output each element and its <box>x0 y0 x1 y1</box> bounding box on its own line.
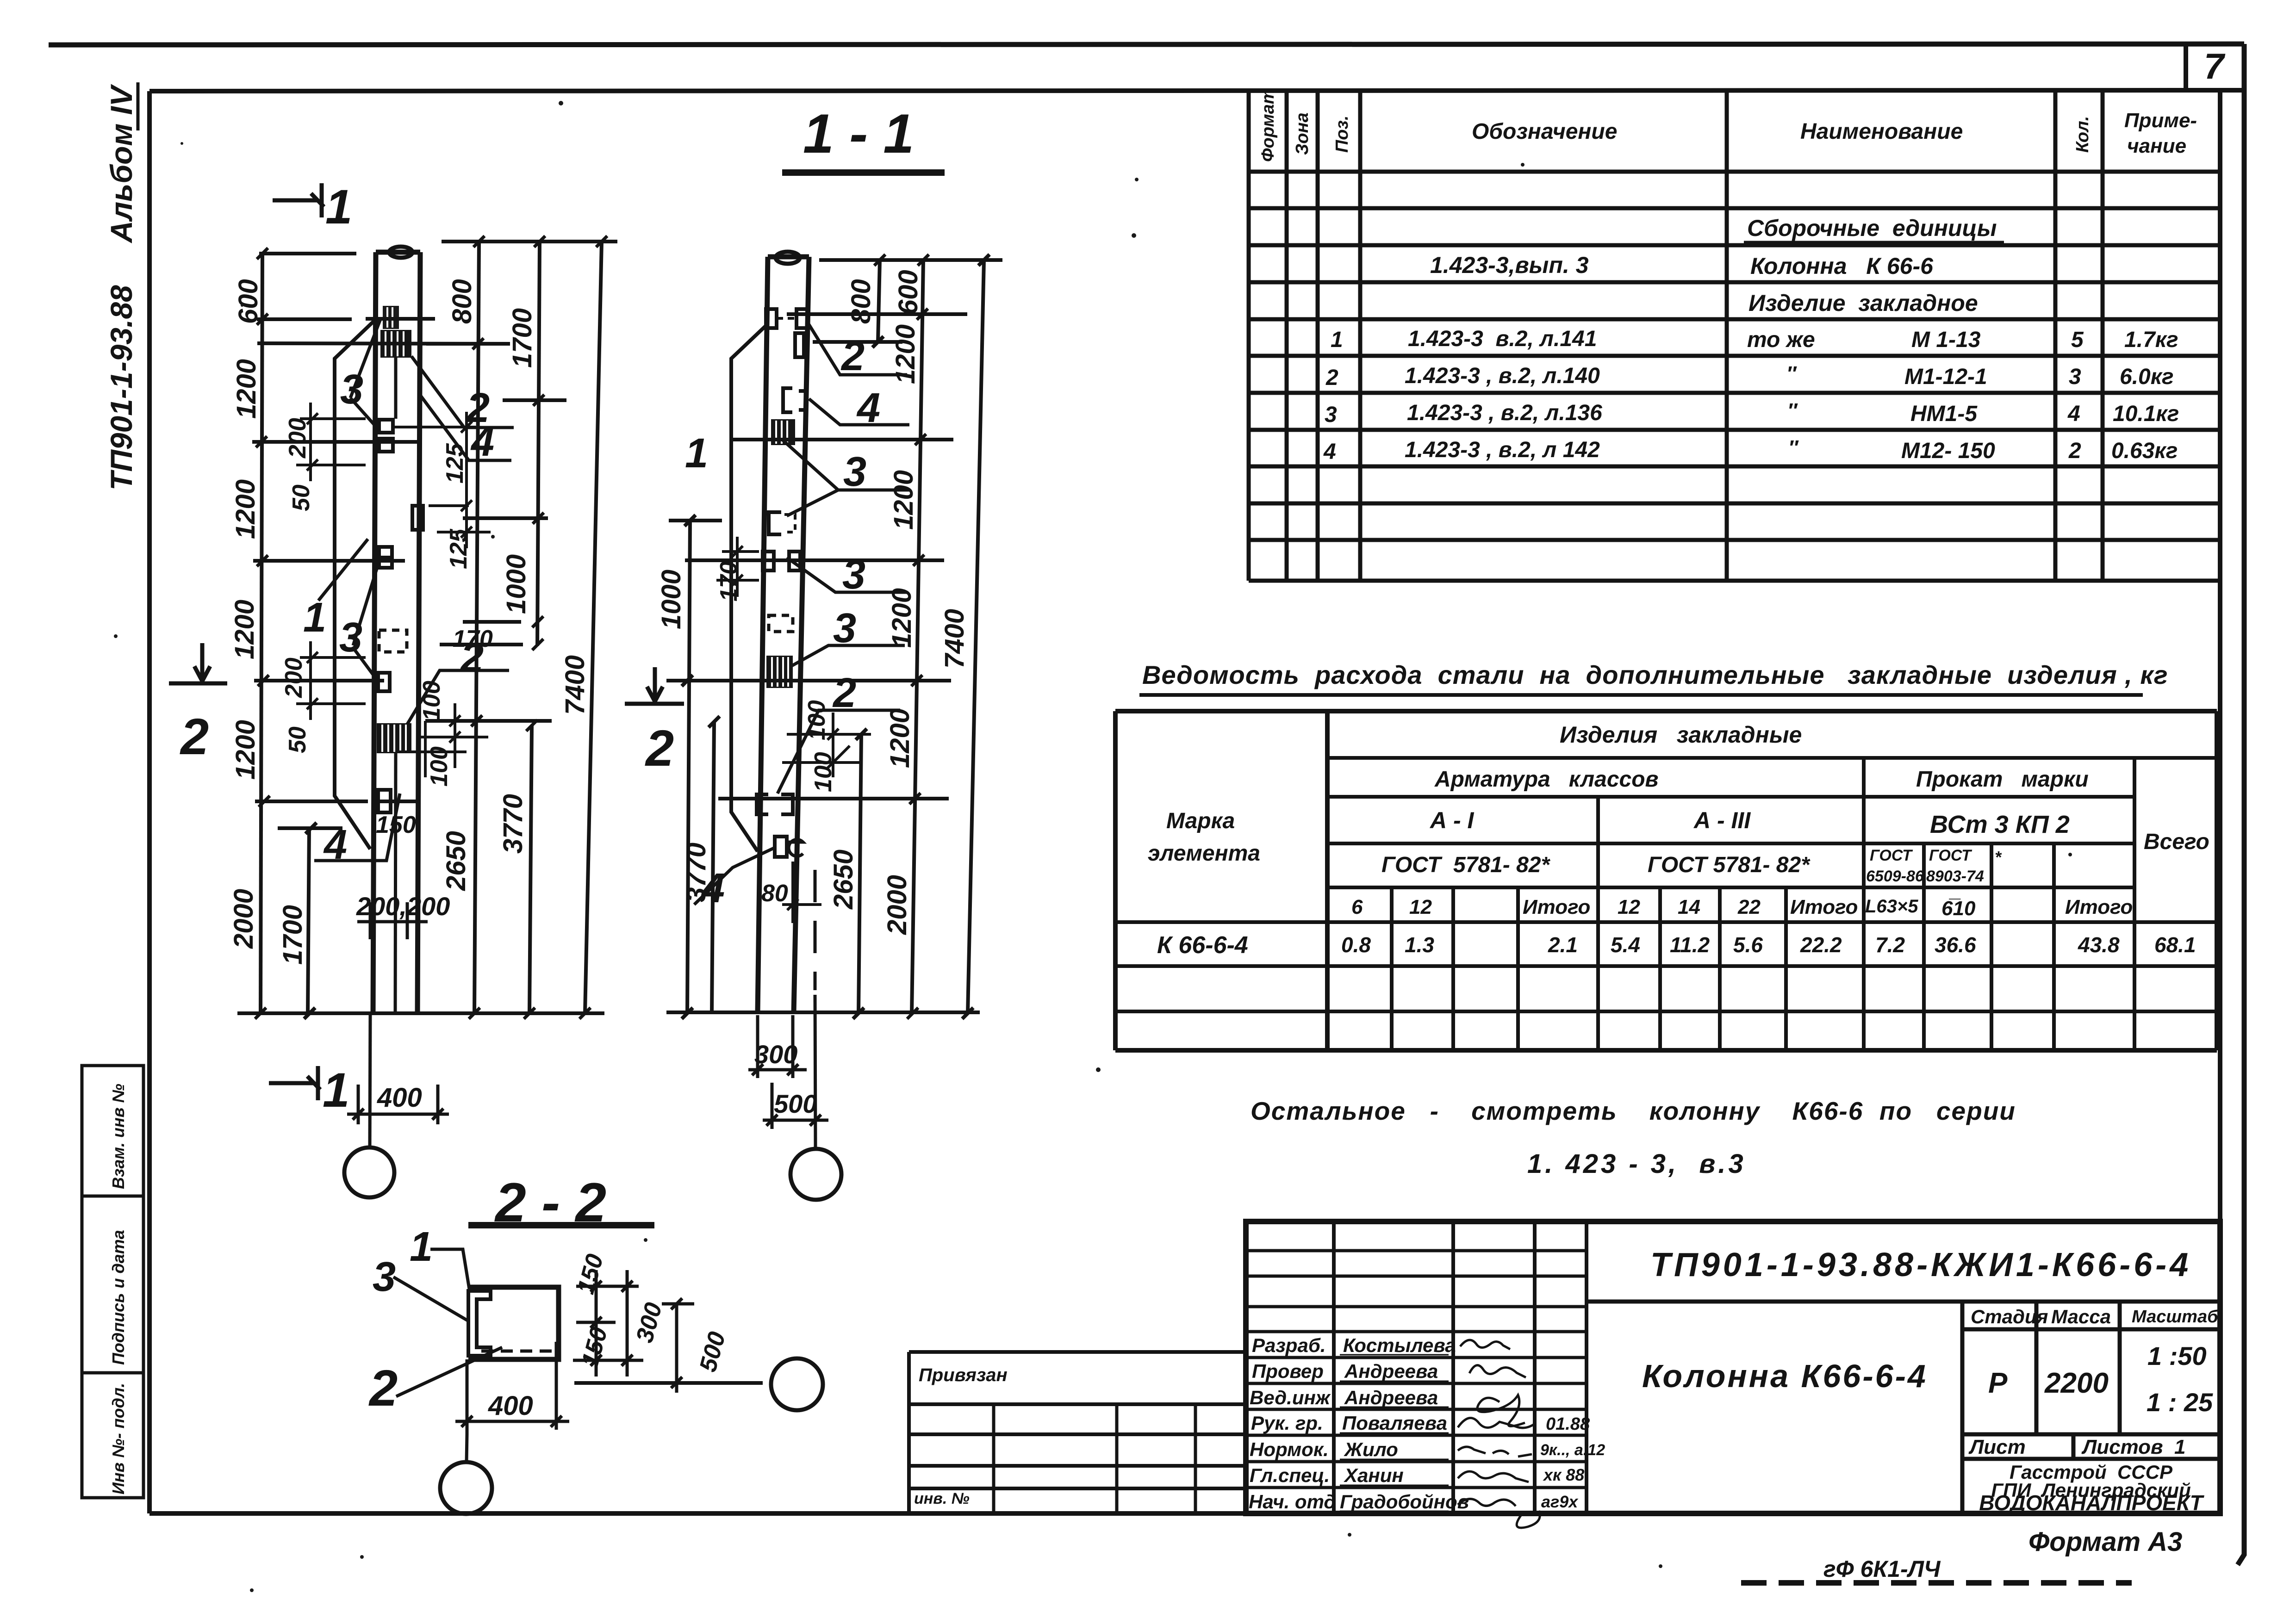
svg-text:Наименование: Наименование <box>1800 119 1963 144</box>
svg-text:11.2: 11.2 <box>1670 933 1710 957</box>
embed tall thin <box>795 333 804 357</box>
svg-text:300: 300 <box>754 1040 797 1069</box>
lifting loop right <box>776 252 800 264</box>
svg-text:НМ1-5: НМ1-5 <box>1910 402 1978 426</box>
svg-text:5.6: 5.6 <box>1733 933 1763 957</box>
svg-text:ТП901-1-93.88 Альбом IV: ТП901-1-93.88 Альбом IV <box>104 84 138 490</box>
svg-text:125: 125 <box>445 528 472 569</box>
svg-text:Приме-: Приме- <box>2124 109 2197 132</box>
embed channel mid <box>379 420 393 452</box>
svg-text:″: ″ <box>1786 362 1797 385</box>
svg-text:1: 1 <box>410 1224 433 1270</box>
svg-text:3: 3 <box>1325 403 1337 427</box>
svg-text:Обозначение: Обозначение <box>1472 119 1617 144</box>
svg-text:600: 600 <box>233 279 263 324</box>
leader 2 top right <box>807 322 907 375</box>
svg-text:3: 3 <box>339 614 362 661</box>
svg-text:2: 2 <box>832 670 856 716</box>
svg-text:2: 2 <box>2068 439 2081 463</box>
400 width dim <box>347 1085 449 1124</box>
RIGHT COLUMN VIEW <box>625 252 1002 1200</box>
svg-text:1. 423 - 3, в.3: 1. 423 - 3, в.3 <box>1527 1149 1746 1179</box>
svg-text:Андреева: Андреева <box>1344 1360 1438 1382</box>
svg-text:170: 170 <box>716 561 742 601</box>
column body right view <box>758 257 809 1013</box>
100/100 dims <box>399 703 488 777</box>
left margin boxes <box>82 1066 143 1498</box>
svg-text:Формат: Формат <box>1258 88 1278 162</box>
svg-text:6.0кг: 6.0кг <box>2120 365 2174 389</box>
small dims 200/50 pair1 <box>296 403 366 481</box>
svg-text:2000: 2000 <box>229 889 259 949</box>
embed small 2 <box>378 673 390 691</box>
svg-text:3: 3 <box>833 605 856 651</box>
svg-text:1: 1 <box>303 595 326 641</box>
circle 2-2 bottom <box>440 1462 492 1514</box>
leader 3 first right <box>782 440 909 516</box>
chain A ticks <box>237 254 510 1013</box>
150/150/300/500 dims <box>573 1270 643 1376</box>
svg-text:Изделия закладные: Изделия закладные <box>1560 722 1802 748</box>
circle 2-2 right <box>771 1358 823 1410</box>
svg-text:Стадия: Стадия <box>1971 1306 2048 1327</box>
svg-text:1.423-3,вып. 3: 1.423-3,вып. 3 <box>1430 252 1589 278</box>
svg-text:Марка: Марка <box>1166 809 1235 833</box>
svg-text:2.1: 2.1 <box>1548 933 1578 957</box>
svg-text:1700: 1700 <box>507 308 537 368</box>
svg-text:Разраб.: Разраб. <box>1252 1334 1326 1356</box>
chamfer profile right <box>731 324 768 851</box>
svg-text:М1-12-1: М1-12-1 <box>1904 365 1987 389</box>
anchor line below embed <box>394 358 398 419</box>
svg-text:1200: 1200 <box>885 708 915 768</box>
svg-text:Провер: Провер <box>1252 1360 1324 1382</box>
svg-text:1: 1 <box>685 430 708 477</box>
svg-text:150: 150 <box>376 812 416 838</box>
sheet right border <box>2238 44 2244 1565</box>
svg-text:100: 100 <box>803 700 830 740</box>
chain 3770 <box>529 725 532 1013</box>
section mark 2 left <box>169 643 227 683</box>
svg-text:125: 125 <box>442 443 468 484</box>
svg-text:ВСт 3 КП 2: ВСт 3 КП 2 <box>1930 811 2070 838</box>
svg-text:4: 4 <box>856 385 880 431</box>
embed bracket dashed <box>769 512 781 534</box>
svg-text:1200: 1200 <box>890 324 921 384</box>
svg-text:Нормок.: Нормок. <box>1250 1438 1329 1460</box>
embed hatched 2 <box>377 723 411 753</box>
svg-text:К 66-6-4: К 66-6-4 <box>1157 932 1248 959</box>
svg-text:1200: 1200 <box>887 588 917 648</box>
svg-text:Формат А3: Формат А3 <box>2028 1527 2182 1557</box>
small dims 200/50 pair2 <box>296 641 366 720</box>
svg-text:Ведомость расхода стали на: Ведомость расхода стали на дополнительны… <box>1142 660 2168 689</box>
svg-text:68.1: 68.1 <box>2154 933 2196 957</box>
lifting loop <box>389 247 412 258</box>
500 dim <box>763 1083 828 1129</box>
note text <box>1251 1097 2016 1179</box>
svg-text:Колонна К 66-6: Колонна К 66-6 <box>1750 253 1934 279</box>
svg-text:Гл.спец.: Гл.спец. <box>1250 1464 1330 1486</box>
embed small 3 <box>378 790 391 812</box>
table grid verticals <box>1249 90 2220 581</box>
leader 2 mid <box>407 670 509 724</box>
svg-text:400: 400 <box>488 1391 533 1421</box>
svg-text:1700: 1700 <box>278 905 308 965</box>
svg-text:50: 50 <box>288 484 315 511</box>
leader 2 top <box>411 356 514 428</box>
leader 4 top <box>419 393 511 460</box>
svg-text:Р: Р <box>1988 1367 2008 1399</box>
axis line to circle right <box>815 995 815 1148</box>
svg-text:*: * <box>1995 848 2002 867</box>
right part lines <box>1587 1302 2220 1513</box>
svg-text:ГОСТ: ГОСТ <box>1929 847 1972 864</box>
svg-text:50: 50 <box>284 726 311 753</box>
svg-text:2650: 2650 <box>441 831 471 891</box>
chain R1 800 <box>813 260 902 347</box>
TITLE BLOCK <box>909 1221 2220 1528</box>
svg-text:6̅10: 6̅10 <box>1941 897 1976 920</box>
svg-text:ТП901-1-93.88-КЖИ1-К66-6-4: ТП901-1-93.88-КЖИ1-К66-6-4 <box>1650 1246 2191 1283</box>
svg-text:Костылева: Костылева <box>1343 1334 1456 1356</box>
column axis line to circle <box>370 1015 370 1147</box>
svg-text:Остальное - смотреть к: Остальное - смотреть колонну К66-6 по се… <box>1251 1097 2016 1125</box>
svg-text:Итого: Итого <box>1523 896 1590 918</box>
chain R3 2650 <box>853 729 867 1019</box>
top tick line right view <box>819 258 1002 262</box>
svg-text:Масштаб: Масштаб <box>2132 1307 2219 1327</box>
center dashed axis <box>814 870 817 990</box>
dim chain A line <box>261 252 262 1013</box>
leader 4 right <box>809 399 909 425</box>
signatures squiggles <box>1460 1340 1510 1349</box>
name baseline rules <box>1340 1355 1449 1511</box>
svg-text:инв. №: инв. № <box>914 1490 970 1507</box>
embed pair mid <box>763 552 800 570</box>
channel embed in section <box>468 1291 491 1356</box>
svg-text:Андреева: Андреева <box>1344 1387 1438 1408</box>
column body left view <box>373 252 420 1015</box>
svg-text:2: 2 <box>645 720 674 777</box>
svg-text:1.3: 1.3 <box>1405 933 1434 957</box>
leader 2 section <box>396 1347 502 1396</box>
svg-text:9к.., а.12: 9к.., а.12 <box>1540 1441 1605 1459</box>
dashed bottom edge <box>481 1350 555 1353</box>
svg-text:01.88: 01.88 <box>1546 1414 1590 1434</box>
svg-text:1200: 1200 <box>230 600 260 659</box>
axis line to circle 2-2 <box>467 1434 467 1462</box>
svg-text:3: 3 <box>2069 365 2081 389</box>
svg-text:Изделие закладное: Изделие закладное <box>1748 290 1978 316</box>
inner frame <box>149 90 2220 1513</box>
svg-text:7400: 7400 <box>940 609 970 669</box>
svg-text:Взам. инв №: Взам. инв № <box>109 1084 128 1189</box>
LEFT COLUMN VIEW <box>169 180 617 1197</box>
leader 3 section <box>393 1277 468 1321</box>
svg-text:1200: 1200 <box>230 720 261 780</box>
embed hatched top right <box>771 419 795 445</box>
svg-text:аг9х: аг9х <box>1541 1492 1579 1511</box>
svg-text:100: 100 <box>810 752 837 792</box>
leader 2 bottom right <box>778 710 900 794</box>
svg-text:Масса: Масса <box>2051 1306 2111 1327</box>
svg-text:1.423-3 в.2, л.141: 1.423-3 в.2, л.141 <box>1408 327 1597 351</box>
svg-text:Подпись и дата: Подпись и дата <box>109 1230 128 1365</box>
SPEC TABLE top right <box>1249 88 2220 581</box>
svg-text:14: 14 <box>1678 896 1700 918</box>
svg-text:2: 2 <box>368 1360 398 1417</box>
svg-text:1.423-3 , в.2, л 142: 1.423-3 , в.2, л 142 <box>1405 438 1600 462</box>
embed pair top <box>766 309 807 328</box>
top small rows <box>1246 1251 1587 1307</box>
embed M1 top small <box>383 306 399 329</box>
chain 7400 <box>585 242 602 1013</box>
170 dim right <box>716 537 759 597</box>
svg-text:ГОСТ: ГОСТ <box>1870 847 1913 864</box>
page number box <box>2186 44 2244 90</box>
left grid verticals <box>1334 1221 1587 1513</box>
svg-text:1200: 1200 <box>889 470 919 530</box>
section mark 1 top <box>273 183 324 217</box>
svg-text:3770: 3770 <box>681 843 711 902</box>
svg-text:Жило: Жило <box>1344 1438 1398 1460</box>
svg-text:Арматура классов: Арматура классов <box>1434 767 1659 792</box>
leader 3 mid <box>353 560 380 680</box>
name rows <box>1246 1332 1587 1488</box>
leader 3 third right <box>787 645 905 669</box>
embed dashed right <box>769 615 793 632</box>
svg-text:800: 800 <box>846 279 876 324</box>
svg-text:0.63кг: 0.63кг <box>2111 439 2178 463</box>
svg-text:5.4: 5.4 <box>1611 933 1640 957</box>
svg-text:2000: 2000 <box>882 875 912 935</box>
svg-text:3: 3 <box>373 1254 396 1300</box>
svg-text:Инв №- подл.: Инв №- подл. <box>109 1383 128 1494</box>
horizontal line to circle <box>574 1381 763 1385</box>
svg-text:8903-74: 8903-74 <box>1926 868 1984 885</box>
svg-text:L63×5: L63×5 <box>1865 896 1918 917</box>
100/100 dims right <box>782 713 871 777</box>
svg-text:ВОДОКАНАЛПРОЕКТ: ВОДОКАНАЛПРОЕКТ <box>1979 1491 2204 1515</box>
svg-text:2: 2 <box>180 708 209 765</box>
svg-text:Нач. отд: Нач. отд <box>1249 1491 1336 1513</box>
embed hatched bottom right <box>766 656 793 688</box>
left chamfer profile <box>335 319 376 849</box>
svg-text:Привязан: Привязан <box>919 1365 1008 1385</box>
svg-text:Кол.: Кол. <box>2073 116 2092 153</box>
chain R2 600-1200-2000 <box>912 260 923 1013</box>
privyazan box <box>909 1352 1246 1513</box>
svg-text:12: 12 <box>1409 896 1432 918</box>
svg-text:элемента: элемента <box>1148 841 1260 866</box>
svg-text:″: ″ <box>1787 399 1798 422</box>
axis circle left view <box>344 1147 394 1197</box>
svg-text:200: 200 <box>280 657 307 698</box>
svg-text:6509-86: 6509-86 <box>1866 868 1924 885</box>
svg-text:″: ″ <box>1788 436 1799 459</box>
svg-text:200: 200 <box>284 418 311 459</box>
STEEL TABLE <box>1115 660 2217 1050</box>
svg-text:Вед.инж: Вед.инж <box>1250 1387 1331 1408</box>
svg-text:Зона: Зона <box>1293 112 1312 155</box>
square section <box>468 1287 559 1359</box>
svg-text:4: 4 <box>2067 402 2080 426</box>
svg-text:1200: 1200 <box>231 359 261 419</box>
svg-text:12: 12 <box>1618 896 1640 918</box>
svg-text:Листов 1: Листов 1 <box>2081 1436 2186 1458</box>
right chain C 800/2650 <box>474 242 479 1013</box>
embed M1 hatched <box>380 330 411 358</box>
section mark 2 right <box>625 667 684 704</box>
svg-text:1.7кг: 1.7кг <box>2124 328 2178 352</box>
svg-text:М 1-13: М 1-13 <box>1911 328 1981 352</box>
svg-text:80: 80 <box>761 880 788 907</box>
section mark 1 bottom <box>269 1066 320 1100</box>
svg-text:ГОСТ 5781- 82*: ГОСТ 5781- 82* <box>1648 853 1811 877</box>
embed small bottom + leader 4 <box>775 837 787 857</box>
svg-text:чание: чание <box>2127 135 2186 157</box>
svg-text:Ханин: Ханин <box>1344 1464 1404 1486</box>
svg-text:100: 100 <box>426 746 453 787</box>
scan speckles <box>114 101 2072 1592</box>
svg-text:то же: то же <box>1747 328 1815 352</box>
svg-text:Итого: Итого <box>2065 896 2133 918</box>
section 1-1 title <box>782 103 945 173</box>
svg-text:1 : 25: 1 : 25 <box>2147 1388 2213 1417</box>
svg-text:600: 600 <box>893 270 923 315</box>
bottom texts <box>1741 1527 2182 1583</box>
svg-text:400: 400 <box>377 1083 422 1113</box>
anchor line below embed 2 <box>395 753 396 1013</box>
svg-text:7.2: 7.2 <box>1875 933 1905 957</box>
svg-text:2200: 2200 <box>2044 1367 2109 1399</box>
svg-text:Всего: Всего <box>2144 830 2209 854</box>
svg-text:500: 500 <box>774 1089 817 1118</box>
125/125 dims <box>394 412 491 548</box>
svg-text:800: 800 <box>447 279 477 324</box>
rotated album title <box>104 82 138 490</box>
svg-text:1000: 1000 <box>501 554 531 614</box>
axis circle right view <box>790 1149 841 1200</box>
svg-text:5: 5 <box>2071 328 2084 352</box>
svg-text:Итого: Итого <box>1790 896 1858 918</box>
svg-text:гФ 6К1-ЛЧ: гФ 6К1-ЛЧ <box>1823 1556 1941 1582</box>
svg-text:22.2: 22.2 <box>1800 933 1842 957</box>
svg-text:170: 170 <box>453 626 493 652</box>
leader 4 bottom <box>314 794 400 861</box>
leader 1 section <box>430 1249 469 1289</box>
chain R4 7400 <box>962 254 989 1019</box>
chain D 1700/1000/170 <box>537 242 540 646</box>
svg-text:Поваляева: Поваляева <box>1342 1412 1447 1434</box>
leader 3 second right <box>787 558 907 592</box>
leader 3 top <box>350 319 380 428</box>
svg-text:22: 22 <box>1737 896 1761 918</box>
svg-text:Поз.: Поз. <box>1332 116 1352 153</box>
SECTION 2-2 <box>368 1172 823 1514</box>
svg-text:6: 6 <box>1351 896 1363 918</box>
svg-text:2: 2 <box>1325 366 1338 390</box>
svg-text:Рук. гр.: Рук. гр. <box>1251 1412 1323 1434</box>
svg-text:хк 88: хк 88 <box>1543 1465 1584 1484</box>
svg-text:1200: 1200 <box>230 479 261 539</box>
svg-text:36.6: 36.6 <box>1935 933 1976 957</box>
svg-text:Сборочные единицы: Сборочные единицы <box>1747 215 1997 241</box>
svg-text:1 :50: 1 :50 <box>2147 1341 2207 1370</box>
svg-text:3770: 3770 <box>498 794 528 854</box>
embed bracket pair bottom <box>757 794 793 814</box>
svg-text:ГОСТ 5781- 82*: ГОСТ 5781- 82* <box>1381 853 1550 877</box>
bottom tick line right view <box>666 1011 980 1014</box>
300 dim <box>748 1015 807 1078</box>
svg-text:7: 7 <box>2204 46 2226 87</box>
svg-text:Прокат марки: Прокат марки <box>1916 767 2089 792</box>
table grid horizontals <box>1249 172 2220 581</box>
title block outer border <box>1246 1221 2220 1513</box>
svg-text:10.1кг: 10.1кг <box>2113 402 2179 426</box>
svg-text:1 - 1: 1 - 1 <box>803 103 914 165</box>
embed C top <box>783 388 807 412</box>
svg-text:А - III: А - III <box>1693 807 1751 833</box>
svg-text:А - I: А - I <box>1429 807 1475 833</box>
3770 chain right view <box>709 716 720 1013</box>
svg-text:1: 1 <box>323 1063 349 1117</box>
svg-text:1: 1 <box>325 180 352 234</box>
chain left 1000 right view <box>666 515 722 1019</box>
embed small <box>379 547 392 568</box>
steel table verticals <box>1115 711 2217 1050</box>
svg-text:Градобойнов: Градобойнов <box>1340 1491 1469 1513</box>
embed dashed <box>379 630 407 652</box>
svg-text:43.8: 43.8 <box>2078 933 2120 957</box>
svg-text:3: 3 <box>340 366 363 413</box>
svg-text:1.423-3 , в.2, л.136: 1.423-3 , в.2, л.136 <box>1407 401 1602 425</box>
leader 1 <box>318 539 368 601</box>
svg-text:4: 4 <box>1323 440 1336 464</box>
svg-text:1000: 1000 <box>656 570 686 629</box>
svg-text:1: 1 <box>1331 328 1343 352</box>
svg-text:7400: 7400 <box>560 655 590 715</box>
svg-text:1.423-3 , в.2, л.140: 1.423-3 , в.2, л.140 <box>1405 364 1600 388</box>
steel table horizontals <box>1115 711 2217 1050</box>
svg-text:2650: 2650 <box>828 849 859 910</box>
400 dim section <box>455 1342 569 1434</box>
chain B 1700 <box>278 823 342 1019</box>
svg-text:100: 100 <box>418 681 445 721</box>
svg-text:3: 3 <box>843 449 866 495</box>
svg-text:М12- 150: М12- 150 <box>1901 439 1995 463</box>
svg-text:0.8: 0.8 <box>1341 933 1371 957</box>
embed on right edge <box>412 506 423 530</box>
svg-text:Колонна К66-6-4: Колонна К66-6-4 <box>1642 1358 1928 1394</box>
svg-text:Лист: Лист <box>1968 1436 2026 1458</box>
